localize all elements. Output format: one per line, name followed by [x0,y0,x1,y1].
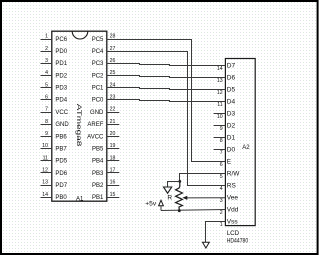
wire +5V to LCD Vdd [161,210,225,211]
svg-text:PC0: PC0 [92,98,104,104]
pin 16 PB2 [92,180,119,189]
svg-text:PC3: PC3 [92,61,104,67]
pin 11 PD5 [41,155,68,164]
svg-text:20: 20 [110,131,116,137]
IC A1 ATmega8 body [52,31,107,201]
svg-text:PD4: PD4 [55,98,67,104]
svg-text:1: 1 [220,222,223,228]
svg-text:PB2: PB2 [92,183,104,189]
LCD pin 9 D2 [214,123,236,132]
svg-text:GND: GND [55,122,69,128]
LCD pin 3 Vee [220,195,239,204]
svg-text:5: 5 [220,174,223,180]
svg-text:PD0: PD0 [55,49,67,55]
svg-text:12: 12 [217,90,223,96]
svg-text:PD3: PD3 [55,86,67,92]
pin 23 PC0 [92,95,120,104]
LCD pin 11 D4 [217,99,235,108]
svg-text:2: 2 [45,46,48,52]
pin 10 PB7 [41,143,68,152]
pin 27 PC4 [92,46,120,55]
svg-text:13: 13 [42,180,48,186]
svg-text:7: 7 [220,150,223,156]
svg-text:PB0: PB0 [55,195,67,201]
pin 28 PC5 [92,34,120,43]
pin 19 PB5 [92,143,119,152]
svg-text:D7: D7 [227,63,236,70]
LCD caption text HD44780 [227,238,249,245]
LCD pin 5 R/W [220,171,241,180]
svg-text:AREF: AREF [87,122,103,128]
svg-text:+5v: +5v [145,200,157,207]
pin 24 PC1 [92,82,120,91]
svg-text:RS: RS [227,183,237,190]
pin 14 PB0 [41,192,68,201]
pin 7 VCC [41,107,69,116]
svg-text:13: 13 [217,78,223,84]
svg-text:GND: GND [90,110,104,116]
svg-text:PC2: PC2 [92,73,104,79]
svg-text:PC1: PC1 [92,86,104,92]
pin 18 PB4 [92,155,119,164]
LCD pin 8 D1 [214,135,236,144]
svg-text:9: 9 [220,126,223,132]
LCD pin 2 Vdd [220,207,239,216]
pin 8 GND [41,119,70,128]
svg-text:3: 3 [45,58,48,64]
LCD designator A2 [242,145,250,151]
potentiometer R label [167,195,172,202]
svg-text:A2: A2 [242,145,250,151]
svg-text:A1: A1 [76,197,84,203]
svg-text:22: 22 [110,107,116,113]
svg-text:PD5: PD5 [55,159,67,165]
junction pot bottom / +5V rail [178,209,181,212]
svg-text:6: 6 [220,162,223,168]
svg-text:VCC: VCC [55,110,68,116]
svg-text:19: 19 [110,143,116,149]
svg-text:14: 14 [217,66,223,72]
wire PC0 pin 23 to LCD D4 [107,100,226,102]
svg-text:3: 3 [220,198,223,204]
svg-text:D6: D6 [227,75,236,82]
LCD pin 4 RS [220,183,237,192]
wire PC4 pin 27 to LCD RS [107,52,226,186]
svg-text:6: 6 [45,95,48,101]
svg-text:8: 8 [45,119,48,125]
LCD pin 10 D3 [214,111,236,120]
wire PC2 pin 25 to LCD D6 [107,76,226,78]
pin 13 PD7 [41,180,68,189]
svg-text:PD2: PD2 [55,73,67,79]
svg-text:R/W: R/W [227,171,241,178]
svg-text:PB4: PB4 [92,159,104,165]
svg-text:PB3: PB3 [92,171,104,177]
LCD caption text LCD [227,230,240,237]
svg-text:21: 21 [110,119,116,125]
svg-text:PC6: PC6 [55,37,67,43]
svg-text:D4: D4 [227,99,236,106]
pin 3 PD1 [41,58,68,67]
pin 25 PC2 [92,70,120,79]
LCD pin 6 E [220,159,232,168]
svg-text:17: 17 [110,168,116,174]
svg-text:R: R [167,195,172,202]
pin 17 PB3 [92,168,119,177]
svg-text:4: 4 [45,70,48,76]
svg-text:PD7: PD7 [55,183,67,189]
LCD pin 1 Vss [220,219,239,228]
svg-text:10: 10 [42,143,48,149]
svg-text:16: 16 [110,180,116,186]
svg-text:Vee: Vee [227,195,239,202]
wire junction to ground arm [168,182,180,188]
svg-text:11: 11 [217,102,222,108]
svg-text:18: 18 [110,155,116,161]
svg-text:PB6: PB6 [55,134,67,140]
pin 9 PB6 [41,131,68,140]
wire LCD Vss to ground [206,222,226,243]
pin 15 PB1 [92,192,119,201]
svg-text:PB1: PB1 [92,195,104,201]
wire PC3 pin 26 to LCD D7 [107,64,226,66]
potentiometer wiper arrow to LCD Vee [182,196,225,200]
ground symbol left (pot/RW) [164,187,172,193]
wire LCD R/W to ground node [180,174,226,182]
svg-text:PD1: PD1 [55,61,67,67]
svg-text:Vss: Vss [227,219,239,226]
pin 6 PD4 [41,95,68,104]
LCD pin 12 D5 [217,87,236,96]
pin 12 PD6 [41,168,68,177]
svg-text:4: 4 [220,186,223,192]
svg-text:14: 14 [42,192,48,198]
svg-text:D5: D5 [227,87,236,94]
LCD pin 14 D7 [217,63,236,72]
svg-text:7: 7 [45,107,48,113]
ground symbol bottom (Vss) [203,242,210,248]
svg-text:10: 10 [217,114,223,120]
pin 22 GND [90,107,119,116]
LCD pin 13 D6 [217,75,236,84]
svg-text:E: E [227,159,232,166]
svg-text:D2: D2 [227,123,236,130]
svg-text:PB7: PB7 [55,146,67,152]
svg-text:HD44780: HD44780 [227,238,249,245]
svg-text:LCD: LCD [227,230,240,237]
svg-text:PD6: PD6 [55,171,67,177]
junction pot top / RW / ground [178,180,181,183]
pin 21 AREF [87,119,119,128]
svg-text:PB5: PB5 [92,146,104,152]
LCD module A2 body [225,59,255,226]
wire PC5 pin 28 to LCD E [107,40,226,162]
svg-text:D1: D1 [227,135,236,142]
pin 2 PD0 [41,46,68,55]
svg-text:PC5: PC5 [92,37,104,43]
svg-text:ATmega8: ATmega8 [75,104,82,147]
svg-text:2: 2 [220,210,223,216]
pin 20 AVCC [87,131,119,140]
pin 26 PC3 [92,58,120,67]
svg-text:AVCC: AVCC [87,134,104,140]
svg-text:5: 5 [45,82,48,88]
svg-text:D0: D0 [227,147,236,154]
svg-text:PC4: PC4 [92,49,104,55]
LCD pin 7 D0 [214,147,236,156]
svg-text:8: 8 [220,138,223,144]
IC A1 designator A1 [76,197,84,203]
wire PC1 pin 24 to LCD D5 [107,88,226,90]
IC A1 vertical label ATmega8 [75,104,82,147]
svg-text:15: 15 [110,192,116,198]
svg-text:11: 11 [43,155,48,161]
potentiometer R body [176,182,183,211]
pin 5 PD3 [41,82,68,91]
pin 1 PC6 [41,34,68,43]
svg-text:D3: D3 [227,111,236,118]
svg-text:12: 12 [42,168,48,174]
svg-text:1: 1 [45,34,48,40]
svg-text:28: 28 [110,34,116,40]
svg-text:Vdd: Vdd [227,207,239,214]
power +5V symbol [145,200,163,210]
pin 4 PD2 [41,70,68,79]
svg-text:9: 9 [45,131,48,137]
